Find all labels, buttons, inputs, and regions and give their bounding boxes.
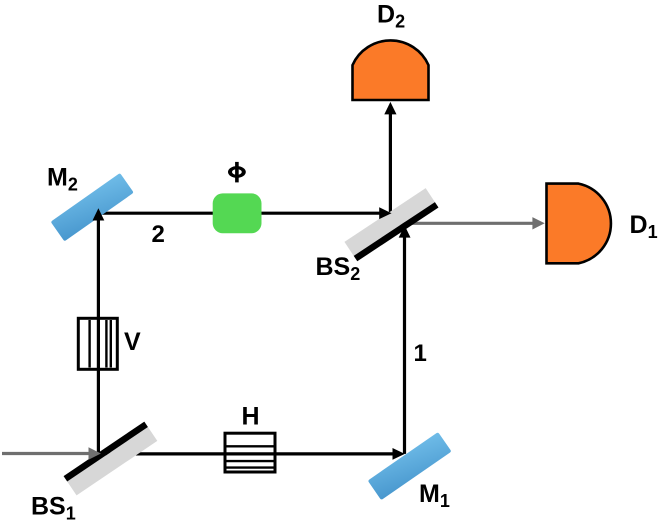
wire path 2 vertical BS1 to M2 [97,216,100,454]
polarizer H [225,433,275,472]
arrowhead right into M1 [393,448,405,460]
arrowhead up into M2 [93,208,105,220]
polarizer V [78,318,117,369]
wire path 1 horizontal BS1 to M1 [98,452,394,455]
wire BS2 to D1 (gray) [400,222,534,225]
label phi [228,162,246,183]
svg-text:M1: M1 [419,480,450,511]
svg-text:2: 2 [152,221,165,248]
beam splitter BS2 [344,188,438,261]
arrowhead gray into D1 [532,217,544,229]
arrowhead right into BS2 [379,207,391,219]
mirror M1 [368,432,452,500]
beam splitter BS1 [64,422,158,496]
arrowhead gray into BS1 [89,447,101,459]
wire path 2 horizontal M2 to BS2 [98,212,380,215]
mirror M2 [51,173,134,241]
detector D2 [353,40,429,100]
arrowhead up into D2 [384,102,396,115]
svg-text:H: H [242,403,260,431]
wire path 1 vertical M1 to BS2 [403,237,406,454]
svg-text:D2: D2 [377,1,405,32]
wire BS2 to D2 [389,113,392,224]
svg-text:1: 1 [414,340,427,367]
svg-text:M2: M2 [47,164,78,195]
svg-text:V: V [124,328,141,356]
arrowhead up into BS2 [399,225,411,237]
detector D1 [547,184,611,264]
svg-text:BS2: BS2 [316,253,361,284]
wire input beam (gray) into BS1 [2,452,89,455]
svg-text:BS1: BS1 [31,493,76,524]
svg-text:D1: D1 [630,211,658,242]
phase shifter phi (green box) [213,193,262,233]
